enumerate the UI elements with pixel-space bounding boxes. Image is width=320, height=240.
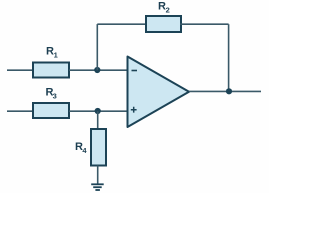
wire: R3 to op-amp non-inverting input bbox=[69, 110, 128, 112]
resistor R2 bbox=[146, 16, 181, 32]
svg-text:1: 1 bbox=[54, 51, 58, 60]
wire: R4 to ground bbox=[97, 166, 99, 185]
wire: feedback top left segment to R2 bbox=[97, 23, 147, 25]
wire: output bbox=[189, 90, 261, 92]
svg-text:3: 3 bbox=[53, 92, 57, 101]
node B: non-inverting input junction dot bbox=[95, 108, 101, 114]
op-amp U1 bbox=[128, 57, 190, 128]
node A: inverting input junction dot bbox=[94, 67, 100, 73]
op-amp inverting pin mark (minus) bbox=[132, 70, 138, 72]
wire: input 2 left segment bbox=[7, 110, 33, 112]
resistor R3 bbox=[33, 103, 69, 118]
wire: input 1 left segment bbox=[7, 69, 33, 71]
wire: R1 to op-amp inverting input bbox=[69, 69, 128, 71]
wire: feedback riser up from node A bbox=[96, 24, 98, 70]
wire: R2 to right corner bbox=[180, 23, 229, 25]
wire: feedback drop to output node bbox=[228, 24, 230, 91]
svg-text:4: 4 bbox=[82, 146, 87, 155]
op-amp non-inverting pin mark (plus) bbox=[131, 107, 137, 113]
resistor R1 bbox=[33, 63, 69, 78]
node: output junction dot bbox=[226, 88, 232, 94]
resistor R4 bbox=[91, 129, 106, 166]
svg-text:2: 2 bbox=[166, 5, 170, 14]
ground bbox=[91, 184, 104, 190]
wire: node B down to R4 bbox=[97, 111, 99, 130]
